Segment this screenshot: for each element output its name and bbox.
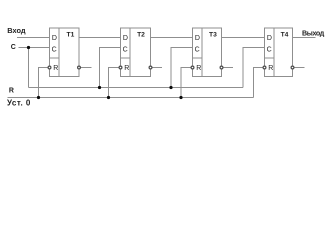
svg-text:R: R	[53, 65, 58, 72]
wire: inverted output stub of T2	[152, 67, 162, 69]
wire: clock riser to C of T2	[100, 48, 121, 88]
flip-flop T3 divider	[201, 28, 203, 77]
flip-flop T2 box	[121, 28, 151, 77]
svg-text:Вход: Вход	[7, 26, 26, 35]
svg-text:T2: T2	[137, 32, 145, 39]
svg-text:C: C	[52, 47, 57, 54]
svg-text:R: R	[9, 88, 14, 95]
wire: clock riser to C of T4	[243, 48, 265, 88]
wire: Vhod input to D of T1	[17, 37, 50, 39]
svg-text:С: С	[11, 44, 16, 51]
svg-text:D: D	[123, 35, 128, 42]
inversion bubble output T3	[220, 66, 223, 69]
flip-flop T4 divider	[273, 28, 275, 77]
wire: clock riser to C of T3	[171, 48, 193, 88]
wire: R riser to R of T2	[109, 68, 119, 98]
flip-flop T1 divider	[58, 28, 60, 77]
svg-text:D: D	[52, 35, 57, 42]
wire: Q of T2 to D of T3	[151, 37, 193, 39]
svg-text:R: R	[268, 65, 273, 72]
svg-text:T1: T1	[67, 32, 75, 39]
svg-text:R: R	[196, 65, 201, 72]
svg-text:R: R	[124, 65, 129, 72]
inversion bubble R input T4	[263, 66, 266, 69]
svg-text:Уст. 0: Уст. 0	[7, 99, 31, 108]
junction node clock bus T2 riser	[98, 86, 101, 89]
junction node clock bus T3 riser	[169, 86, 172, 89]
svg-text:T3: T3	[209, 32, 217, 39]
junction node R bus T3 riser	[179, 96, 182, 99]
wire: R riser to R of T1	[39, 68, 48, 98]
flip-flop T2 divider	[129, 28, 131, 77]
junction node R bus T1 riser	[37, 96, 40, 99]
inversion bubble R input T3	[191, 66, 194, 69]
wire: inverted output stub of T4	[294, 67, 304, 69]
svg-text:D: D	[195, 35, 200, 42]
wire: R bus (Ust.0)	[8, 97, 254, 99]
wire: C input to C of T1	[19, 47, 50, 49]
inversion bubble R input T2	[119, 66, 122, 69]
wire: inverted output stub of T3	[223, 67, 233, 69]
inversion bubble output T4	[291, 66, 294, 69]
wire: inverted output stub of T1	[81, 67, 92, 69]
inversion bubble output T1	[78, 66, 81, 69]
wire: Q of T1 to D of T2	[79, 37, 121, 39]
flip-flop T1 R-cell separator	[50, 57, 60, 59]
inversion bubble R input T1	[48, 66, 51, 69]
svg-text:C: C	[195, 47, 200, 54]
wire: clock drop from node to clock bus	[28, 48, 30, 88]
flip-flop T4 R-cell separator	[265, 57, 275, 59]
flip-flop T3 R-cell separator	[193, 57, 203, 59]
flip-flop T4 box	[265, 28, 293, 77]
flip-flop T1 box	[50, 28, 80, 77]
junction node clock at C wire	[27, 46, 30, 49]
svg-text:C: C	[123, 47, 128, 54]
wire: R riser to R of T4	[254, 68, 263, 98]
wire: Q of T3 to D of T4	[222, 37, 265, 39]
svg-text:D: D	[267, 35, 272, 42]
inversion bubble output T2	[149, 66, 152, 69]
wire: clock bus	[29, 87, 244, 89]
svg-text:T4: T4	[281, 32, 289, 39]
svg-text:C: C	[267, 47, 272, 54]
junction node R bus T2 riser	[107, 96, 110, 99]
flip-flop T3 box	[193, 28, 222, 77]
wire: Q of T4 to Vyhod output	[293, 37, 316, 39]
flip-flop T2 R-cell separator	[121, 57, 131, 59]
wire: R riser to R of T3	[181, 68, 191, 98]
svg-text:Выход: Выход	[302, 29, 325, 37]
